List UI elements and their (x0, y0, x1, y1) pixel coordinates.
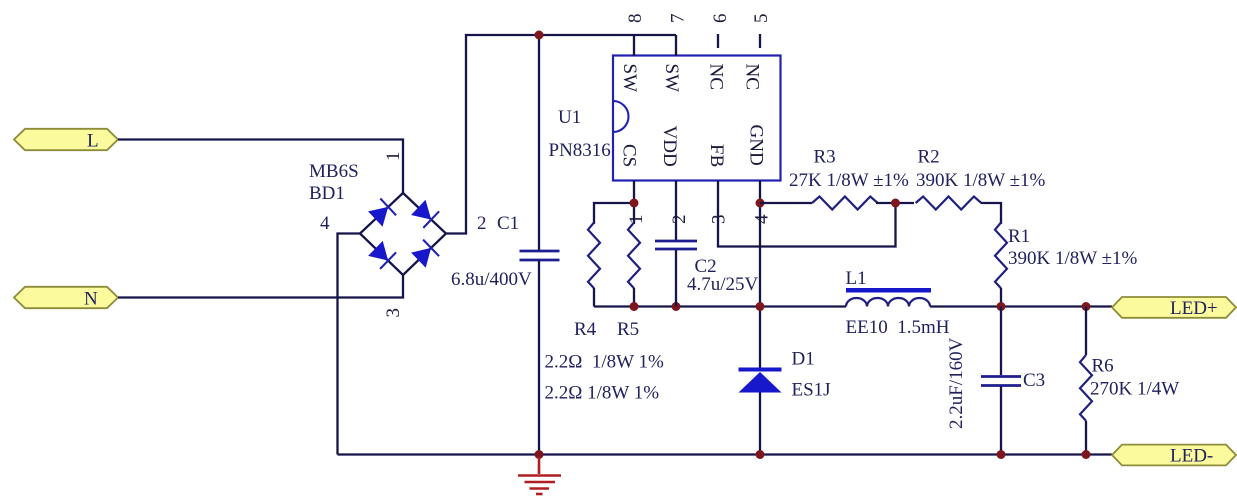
pin 6 stub (717, 34, 719, 48)
junction R1 C3 mid (997, 302, 1006, 311)
wire L to bridge top (118, 140, 403, 195)
resistor R4 (588, 223, 600, 289)
svg-text:8: 8 (625, 14, 646, 24)
ground (518, 457, 561, 494)
junction R6 mid (1082, 302, 1091, 311)
mid rail wire (594, 305, 846, 307)
wire R3 to R2 (876, 202, 914, 204)
bridge rectifier BD1 MB6S (360, 193, 446, 275)
svg-text:SW: SW (661, 64, 682, 93)
pin 2 VDD wire (675, 181, 677, 241)
svg-text:N: N (84, 289, 98, 310)
inductor L1 (846, 288, 931, 307)
wire GND to R3 (760, 202, 812, 204)
junction C2 bottom (672, 302, 681, 311)
svg-text:2.2Ω 1/8W 1%: 2.2Ω 1/8W 1% (545, 352, 664, 373)
pin 7 stub (675, 35, 677, 56)
svg-text:R3: R3 (814, 147, 836, 168)
svg-text:R1: R1 (1008, 226, 1030, 247)
svg-text:2: 2 (477, 213, 487, 234)
svg-text:MB6S: MB6S (309, 161, 359, 182)
connector L (14, 129, 118, 152)
svg-text:27K 1/8W ±1%: 27K 1/8W ±1% (789, 170, 909, 191)
junction R3 R2 FB (891, 199, 900, 208)
svg-text:LED+: LED+ (1170, 298, 1218, 319)
svg-text:LED-: LED- (1170, 446, 1213, 467)
pin 4 GND wire (759, 181, 761, 369)
junction GND branch (756, 199, 765, 208)
wire CS branch to R4 (594, 203, 634, 224)
diode bottom-right (411, 248, 431, 268)
junction C3 bottom (997, 450, 1006, 459)
svg-text:R6: R6 (1092, 356, 1114, 377)
svg-text:L1: L1 (846, 268, 867, 289)
svg-text:3: 3 (709, 215, 730, 225)
svg-text:R2: R2 (918, 147, 940, 168)
svg-text:5: 5 (751, 14, 772, 24)
svg-text:2: 2 (669, 215, 690, 225)
capacitor C1 (520, 35, 560, 455)
svg-text:NC: NC (742, 64, 763, 90)
bottom rail wire (338, 453, 1113, 455)
svg-text:4: 4 (320, 213, 330, 234)
svg-text:6: 6 (710, 14, 731, 24)
svg-text:BD1: BD1 (309, 183, 345, 204)
svg-text:ES1J: ES1J (792, 380, 831, 401)
junction C1 top (535, 31, 544, 40)
svg-text:NC: NC (706, 64, 727, 90)
wire bridge plus up to top rail (446, 35, 676, 234)
diode top-left (368, 207, 388, 227)
svg-text:L: L (87, 131, 99, 152)
resistor R6 (1080, 307, 1092, 455)
svg-text:390K 1/8W ±1%: 390K 1/8W ±1% (1008, 248, 1138, 269)
junction GND mid rail (756, 302, 765, 311)
svg-text:R4: R4 (574, 319, 597, 340)
svg-text:7: 7 (668, 14, 689, 24)
junction R5 bottom (630, 302, 639, 311)
pin 5 stub (759, 34, 761, 48)
svg-text:R5: R5 (617, 319, 639, 340)
op-amp U1 PN8316 IC body (613, 56, 781, 181)
svg-text:2.2uF/160V: 2.2uF/160V (946, 337, 967, 429)
svg-text:1: 1 (383, 152, 404, 162)
pin 1 CS wire (633, 181, 635, 225)
wire R4 bottom (593, 288, 595, 307)
wire R5 bottom (633, 288, 635, 307)
resistor R1 (995, 223, 1007, 289)
diode top-right (411, 200, 431, 220)
diode D1 (739, 368, 782, 455)
wire R1 bottom (1000, 288, 1002, 307)
svg-text:CS: CS (619, 144, 640, 167)
pin 3 FB wire (718, 181, 896, 247)
capacitor C2 (655, 241, 697, 307)
junction D1 bottom (756, 450, 765, 459)
junction R6 bottom (1082, 450, 1091, 459)
pin 8 stub (633, 35, 635, 56)
junction ground (535, 450, 544, 459)
resistor R3 (812, 197, 878, 210)
wire bridge minus to bottom rail (338, 234, 361, 455)
junction CS (630, 199, 639, 208)
connector N (14, 287, 118, 310)
svg-text:SW: SW (619, 64, 640, 93)
svg-text:C1: C1 (497, 213, 519, 234)
diode bottom-left (368, 241, 388, 261)
svg-text:270K 1/4W: 270K 1/4W (1090, 379, 1179, 400)
wire R2 to R1 (981, 203, 1001, 224)
svg-text:4.7u/25V: 4.7u/25V (687, 274, 759, 295)
svg-text:1: 1 (626, 215, 647, 225)
wire N to bridge bottom (118, 275, 403, 298)
svg-text:EE10 1.5mH: EE10 1.5mH (846, 317, 950, 338)
connector LED+ (1112, 297, 1236, 319)
resistor R5 (628, 223, 640, 289)
connector LED- (1112, 445, 1236, 467)
capacitor C3 (981, 307, 1021, 455)
svg-text:4: 4 (751, 214, 772, 224)
svg-text:FB: FB (706, 144, 727, 167)
svg-text:C3: C3 (1023, 370, 1045, 391)
svg-text:D1: D1 (792, 349, 815, 370)
svg-text:2.2Ω 1/8W 1%: 2.2Ω 1/8W 1% (545, 383, 660, 404)
svg-text:U1: U1 (558, 107, 581, 128)
svg-text:PN8316: PN8316 (549, 140, 611, 161)
svg-text:GND: GND (746, 125, 767, 166)
svg-text:3: 3 (383, 308, 404, 318)
svg-text:390K 1/8W ±1%: 390K 1/8W ±1% (916, 170, 1046, 191)
svg-text:6.8u/400V: 6.8u/400V (451, 269, 532, 290)
svg-text:VDD: VDD (659, 126, 680, 167)
resistor R2 (916, 197, 982, 210)
